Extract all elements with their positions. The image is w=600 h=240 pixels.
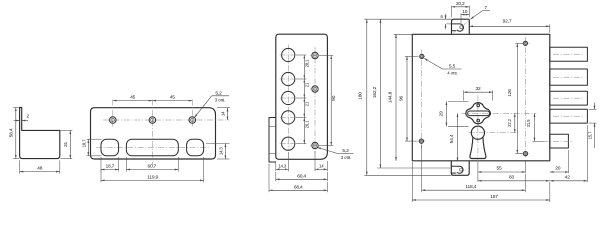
dim 29 (escutcheon height) — [439, 102, 469, 127]
slot centerline — [96, 147, 210, 149]
svg-text:92,7: 92,7 — [503, 18, 512, 24]
leader 5,2 / 3 holes — [317, 147, 353, 160]
dim 14 (plate top to hole axis) — [217, 108, 230, 120]
latch — [543, 134, 574, 148]
svg-text:32: 32 — [475, 86, 481, 92]
svg-text:14: 14 — [319, 163, 324, 168]
large hole 4 — [280, 111, 297, 124]
vertical centerline small holes — [314, 47, 316, 153]
dim 92,7 (tab to right edge) — [469, 18, 550, 33]
svg-text:28,1: 28,1 — [305, 59, 310, 68]
svg-text:18,7: 18,7 — [81, 139, 86, 148]
vertical centerline hole 2 / symmetry axis — [151, 100, 153, 167]
dim 96 (left holes) — [399, 56, 418, 141]
vertical centerline large holes — [288, 45, 290, 151]
large hole 3 — [280, 91, 297, 104]
escutcheon quatrefoil — [466, 103, 491, 124]
svg-text:14: 14 — [221, 111, 226, 116]
dim 45 left — [113, 95, 153, 101]
chain dim 28,1 — [296, 55, 310, 79]
slot right — [187, 139, 204, 156]
slot middle — [126, 139, 178, 156]
dim 31 (box height) — [60, 130, 72, 158]
svg-text:42: 42 — [565, 175, 571, 181]
svg-text:162,2: 162,2 — [372, 86, 378, 98]
svg-text:22,2: 22,2 — [507, 118, 512, 127]
svg-text:4 отв.: 4 отв. — [447, 71, 457, 76]
dim 58,4 (bracket height) — [9, 108, 20, 159]
svg-text:20,2: 20,2 — [456, 1, 465, 7]
hole 2 — [149, 117, 156, 124]
svg-text:14,3: 14,3 — [219, 147, 224, 156]
large hole 2 — [280, 72, 297, 85]
top tab with hook — [452, 19, 470, 34]
vertical centerline hole 3 — [191, 100, 193, 129]
svg-text:157: 157 — [490, 194, 498, 200]
dim 14 (holes to right edge) — [315, 151, 327, 171]
right holes centerline — [524, 37, 526, 159]
dim 32 (escutcheon width) — [464, 86, 493, 100]
svg-text:15,7: 15,7 — [587, 131, 592, 140]
svg-text:180: 180 — [358, 92, 364, 100]
dim 42 (bolt protrusion) — [550, 125, 588, 182]
svg-text:96: 96 — [399, 96, 405, 102]
dim 180 (overall height) — [358, 19, 452, 175]
leader 5,5 / 4 holes — [424, 58, 462, 75]
svg-text:144,8: 144,8 — [388, 91, 394, 103]
dim 18,7 (left slot) — [101, 157, 119, 172]
dim 18,7 (slot height, left side) — [81, 139, 101, 156]
side plate outline — [276, 34, 328, 159]
dim 2 (leg thickness) — [14, 114, 30, 121]
bolt 3 — [550, 91, 588, 105]
bolt 2 — [550, 69, 588, 85]
dim 126 (right holes) — [507, 43, 523, 153]
key bow circle centerline — [469, 132, 519, 134]
svg-text:68,4: 68,4 — [294, 184, 303, 190]
dim 10 (hook mouth) — [461, 9, 469, 23]
svg-text:90: 90 — [331, 95, 337, 101]
bolt 4 — [550, 109, 588, 123]
svg-text:31,5: 31,5 — [526, 119, 531, 128]
dim 14,3 (left edge to holes) — [276, 152, 289, 171]
dim 20 (latch length) — [550, 150, 569, 173]
keyhole vertical centerline — [477, 96, 479, 163]
dim 45 right — [152, 95, 192, 101]
small hole B — [310, 86, 320, 92]
hole bottom-left — [417, 139, 428, 143]
svg-text:54,4: 54,4 — [449, 134, 455, 143]
svg-text:5,2: 5,2 — [215, 90, 222, 96]
chain dim 21 lower — [296, 98, 310, 117]
dim 55 (keyhole axis to right holes) — [478, 160, 526, 173]
svg-text:83: 83 — [509, 175, 515, 181]
escutcheon screw hole top — [477, 104, 480, 107]
svg-text:48: 48 — [37, 166, 43, 172]
lock body outline — [412, 34, 550, 161]
small hole A — [310, 52, 320, 58]
dim 162,2 (tab top to body bottom) — [372, 19, 451, 168]
svg-text:3 отв.: 3 отв. — [215, 97, 225, 102]
dim 54,4 (axis to body bottom) — [449, 113, 457, 161]
bottom tab with hook — [451, 161, 469, 176]
hole top-right — [520, 41, 531, 45]
large hole 1 — [280, 48, 297, 61]
leader 7 (hook plate thickness) — [470, 5, 490, 19]
svg-text:55: 55 — [496, 166, 502, 172]
svg-text:58,4: 58,4 — [9, 128, 15, 137]
dim 15,7 (bolt height) — [587, 103, 596, 149]
svg-text:21: 21 — [305, 101, 310, 106]
svg-text:14,3: 14,3 — [278, 163, 287, 168]
escutcheon screw hole bottom — [477, 119, 480, 122]
svg-text:3 отв.: 3 отв. — [341, 155, 351, 160]
svg-text:20: 20 — [555, 166, 561, 172]
strike plate outline — [91, 108, 216, 159]
dim 6 (tab top offset) — [440, 14, 451, 30]
svg-text:29: 29 — [439, 111, 445, 117]
chain dim 26,1 — [296, 117, 310, 143]
bracket tab edge view — [269, 118, 276, 163]
dim 83 (keyhole axis to right edge) — [478, 162, 550, 182]
key bow circle — [471, 126, 484, 139]
left holes centerline — [421, 50, 423, 149]
svg-text:5,5: 5,5 — [449, 63, 456, 69]
dim 118,4 (hole columns) — [422, 145, 526, 192]
svg-text:21: 21 — [305, 82, 310, 87]
bolt 1 — [550, 47, 588, 61]
chain dim 21 upper — [296, 79, 310, 98]
svg-text:126: 126 — [507, 89, 513, 97]
dim 31,5 (axis to latch axis) — [526, 113, 543, 141]
hole 1 — [110, 117, 117, 124]
bracket profile outline — [20, 108, 60, 159]
svg-text:18,7: 18,7 — [105, 163, 114, 169]
svg-text:60,4: 60,4 — [297, 173, 306, 179]
hole top-left — [417, 54, 428, 58]
svg-text:10: 10 — [462, 9, 468, 15]
dim 68,4 (overall width) — [269, 164, 327, 193]
svg-text:60,7: 60,7 — [147, 163, 156, 169]
svg-text:118,4: 118,4 — [465, 184, 476, 190]
leader 5,2 / 3 holes — [194, 90, 229, 117]
small hole C — [310, 142, 320, 148]
svg-text:45: 45 — [170, 95, 176, 101]
slot left — [101, 139, 119, 156]
svg-text:45: 45 — [130, 95, 136, 101]
key shank bell — [470, 137, 486, 159]
dim 144,8 (body height) — [388, 34, 413, 161]
dim 22,2 (axis to bow) — [507, 113, 515, 132]
dim 60,4 (plate width) — [276, 172, 328, 181]
keyhole horizontal centerline — [462, 112, 537, 114]
escutcheon slot — [468, 111, 490, 116]
dim 157 (overall width) — [412, 162, 550, 202]
svg-text:5,2: 5,2 — [342, 148, 349, 154]
dim 119,9 (overall slots) — [101, 157, 204, 182]
dim 90 (small holes) — [319, 56, 337, 146]
dim 48 (bracket width) — [20, 160, 60, 173]
svg-text:26,1: 26,1 — [305, 120, 310, 129]
horizontal centerline through holes — [103, 119, 230, 121]
large hole 5 — [280, 137, 297, 150]
svg-text:119,9: 119,9 — [147, 174, 158, 180]
dim 14,3 (slot axis to plate bottom) — [206, 144, 230, 160]
svg-text:31: 31 — [63, 142, 69, 148]
vertical centerline hole 1 — [112, 100, 114, 129]
hole bottom-right — [520, 152, 531, 156]
dim 20,2 (tab width) — [452, 1, 470, 17]
dim 60,7 (middle slot) — [126, 157, 178, 172]
hole 3 — [189, 117, 196, 124]
